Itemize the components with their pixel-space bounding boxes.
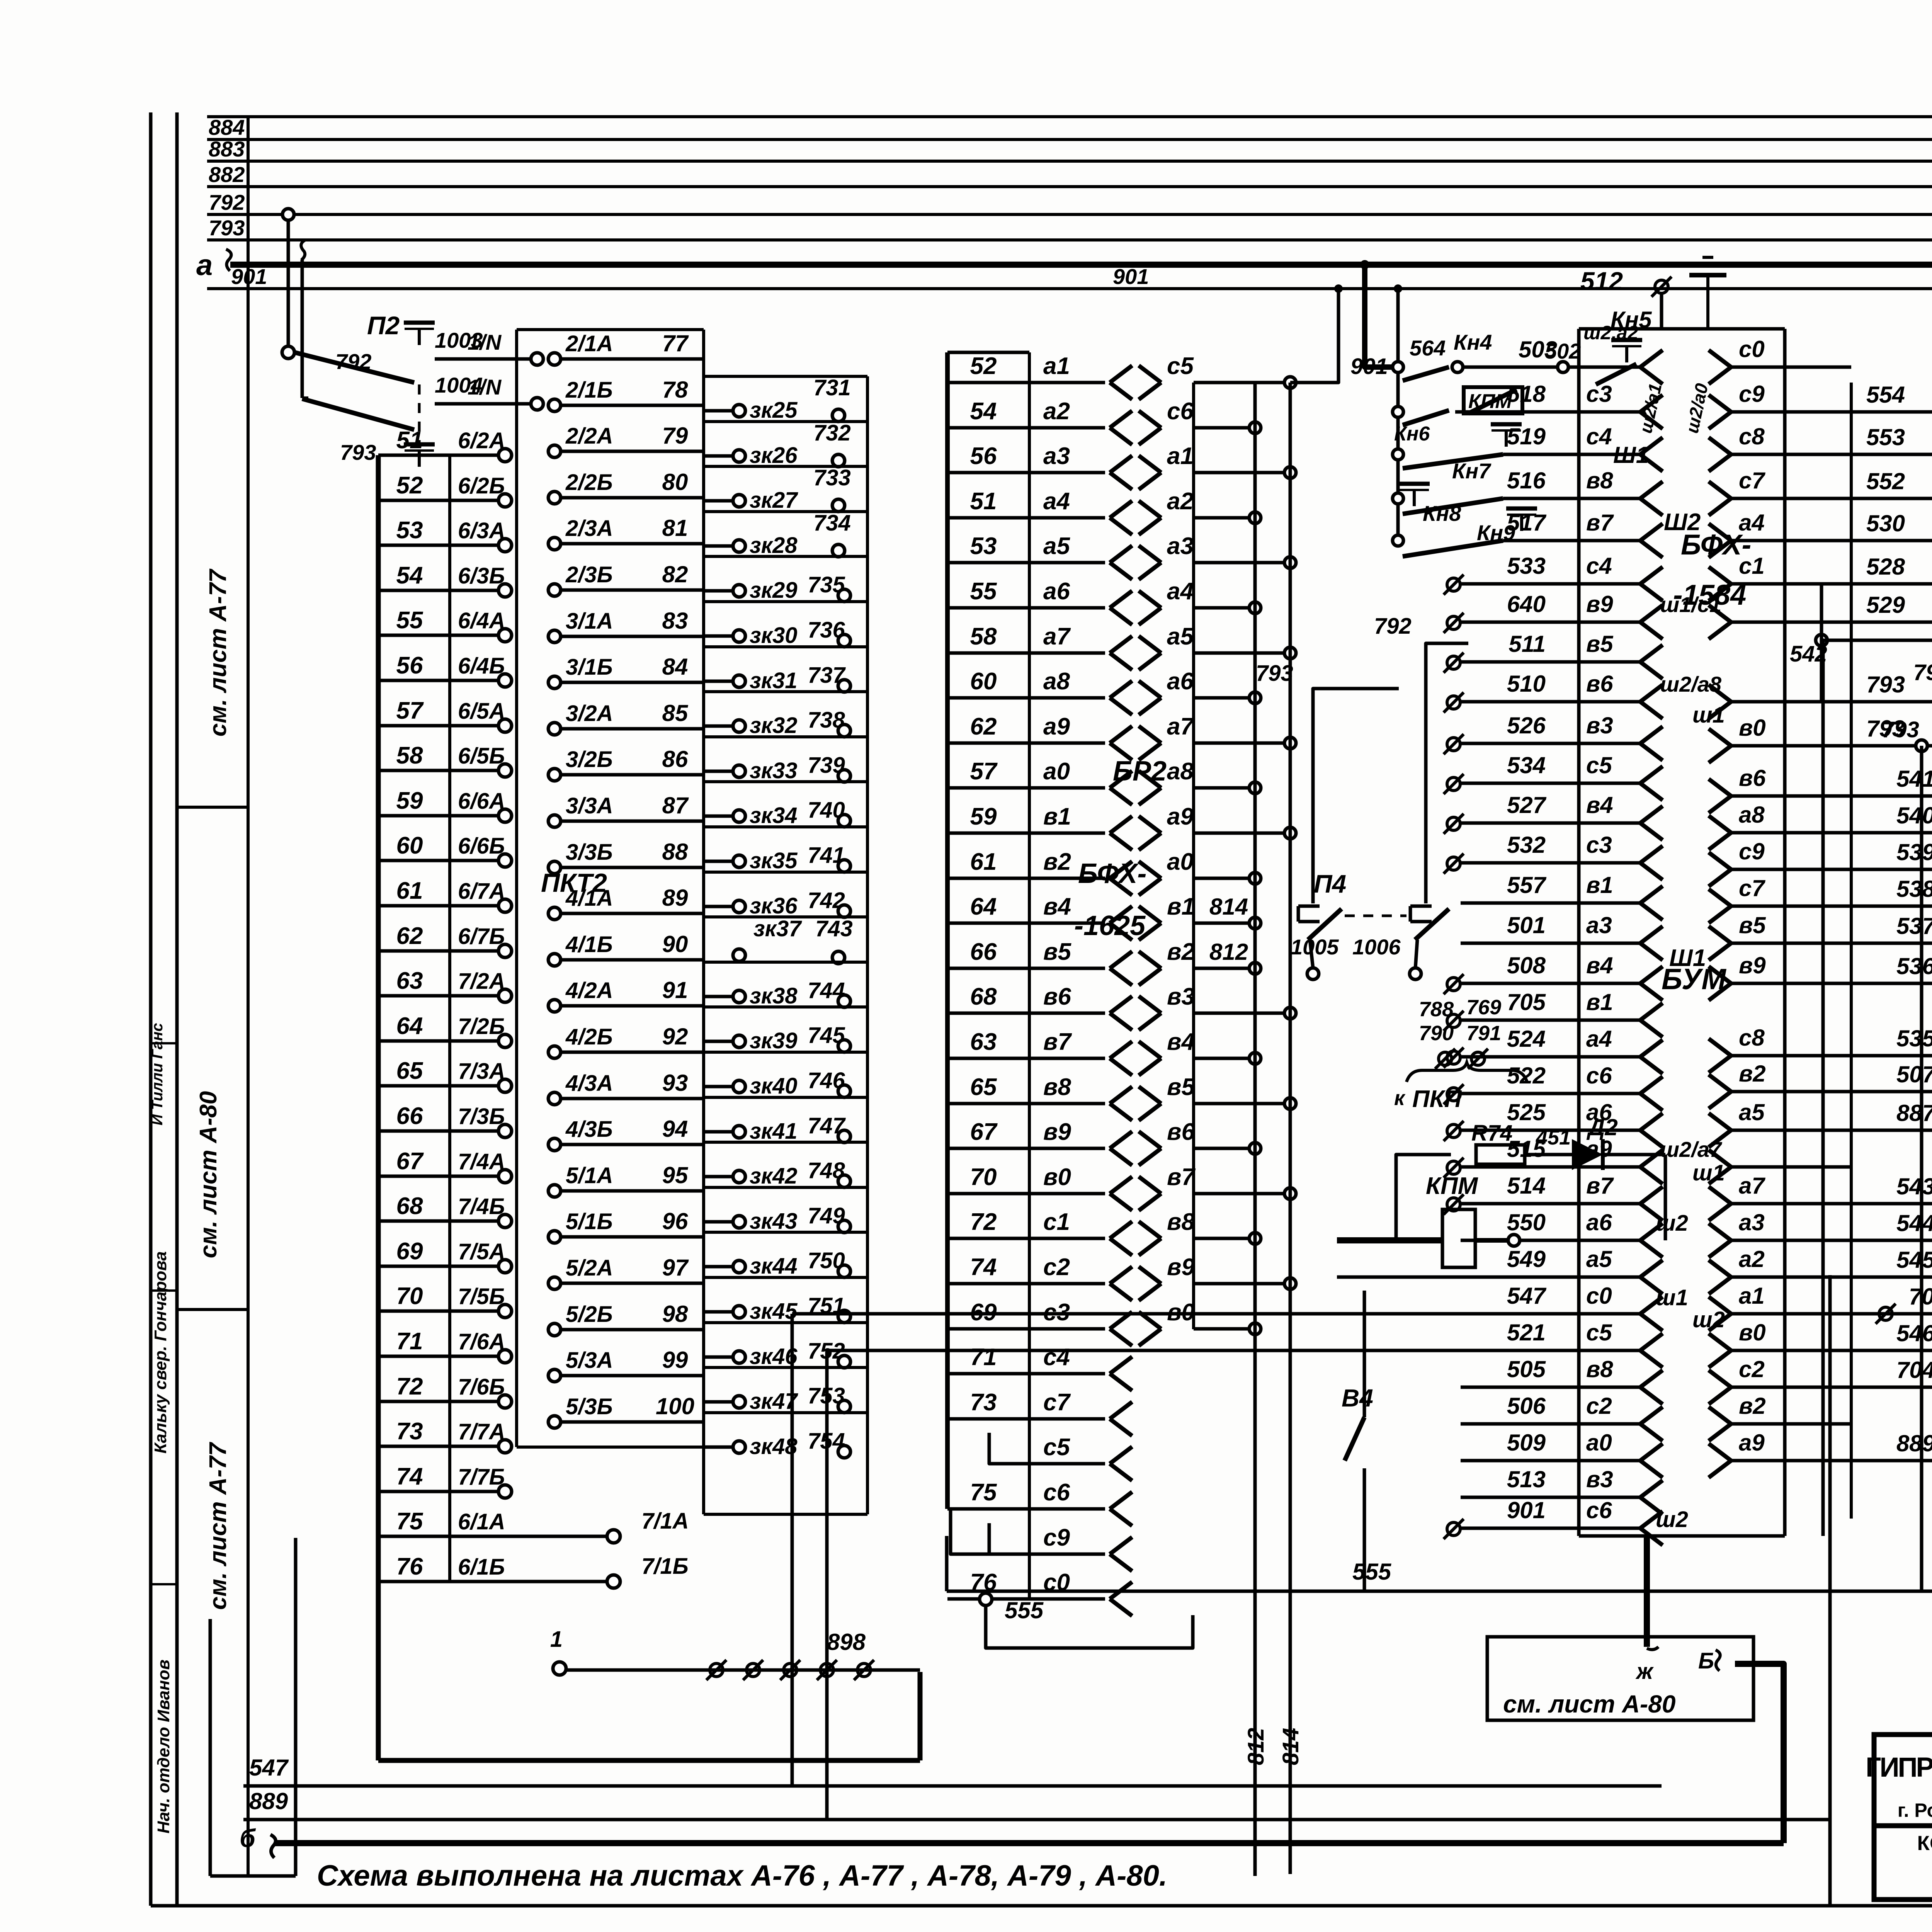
svg-text:791: 791 xyxy=(1466,1022,1501,1045)
svg-text:Нач. отдело Иванов: Нач. отдело Иванов xyxy=(154,1660,173,1833)
svg-text:7/2Б: 7/2Б xyxy=(458,1014,505,1039)
svg-text:546: 546 xyxy=(1896,1320,1932,1346)
svg-text:53: 53 xyxy=(970,533,997,560)
svg-text:60: 60 xyxy=(396,832,423,859)
svg-text:530: 530 xyxy=(1866,510,1905,536)
svg-text:см. лист А-77: см. лист А-77 xyxy=(205,1442,231,1610)
svg-text:640: 640 xyxy=(1507,591,1546,617)
svg-text:793: 793 xyxy=(1913,660,1932,685)
svg-text:6/2Б: 6/2Б xyxy=(458,473,505,498)
drawing frame bottom border xyxy=(151,1904,1932,1908)
svg-text:1: 1 xyxy=(550,1627,563,1652)
svg-text:в6: в6 xyxy=(1586,671,1613,697)
БУМ block top edge xyxy=(1579,327,1785,331)
svg-text:а7: а7 xyxy=(1043,623,1071,650)
svg-text:зк27: зк27 xyxy=(750,488,798,513)
БУМ pin ш2/а2 fork xyxy=(1640,350,1663,367)
svg-text:882: 882 xyxy=(209,162,245,187)
svg-text:553: 553 xyxy=(1866,424,1905,450)
svg-text:зк31: зк31 xyxy=(750,668,798,693)
svg-text:ш2: ш2 xyxy=(1656,1211,1688,1236)
switch П2 link dashes xyxy=(418,384,421,442)
svg-text:см. лист А-80: см. лист А-80 xyxy=(1503,1690,1675,1718)
svg-text:в8: в8 xyxy=(1043,1074,1071,1100)
svg-text:в0: в0 xyxy=(1739,715,1766,741)
wire 793 step (ш2/а8) xyxy=(1821,640,1932,662)
БУМ right pin с9 wire 539 xyxy=(1709,852,1731,869)
relay contact зк36 742 xyxy=(704,871,867,874)
svg-text:в6: в6 xyxy=(1167,1119,1195,1145)
wire 542 drop xyxy=(1821,640,1851,702)
svg-text:533: 533 xyxy=(1507,553,1546,579)
svg-text:ш1: ш1 xyxy=(1656,1285,1688,1310)
svg-text:552: 552 xyxy=(1866,468,1905,494)
БУМ right pin с0 wire xyxy=(1709,350,1731,367)
svg-text:в1: в1 xyxy=(1586,989,1613,1015)
svg-text:зк29: зк29 xyxy=(750,578,798,603)
svg-text:793: 793 xyxy=(340,440,376,464)
svg-text:в7: в7 xyxy=(1043,1029,1072,1055)
svg-text:506: 506 xyxy=(1507,1393,1546,1419)
svg-text:1/N: 1/N xyxy=(468,375,502,399)
wire ш2 drop to bottom xyxy=(1828,1275,1832,1905)
svg-text:а2: а2 xyxy=(1167,488,1194,515)
svg-text:с3: с3 xyxy=(1586,381,1612,407)
БР2 right pin а0 xyxy=(1139,861,1161,878)
svg-text:Д2: Д2 xyxy=(1586,1114,1618,1140)
svg-text:Ш1: Ш1 xyxy=(1669,945,1706,971)
svg-text:790: 790 xyxy=(1419,1022,1454,1045)
svg-text:ш1: ш1 xyxy=(1692,702,1725,728)
thick wire from Б xyxy=(1735,1664,1784,1843)
svg-text:519: 519 xyxy=(1507,423,1546,449)
svg-text:5/3А: 5/3А xyxy=(566,1348,613,1373)
svg-text:67: 67 xyxy=(970,1119,998,1145)
wire 564 drop from а-bus xyxy=(1365,265,1392,367)
svg-text:57: 57 xyxy=(970,758,998,785)
svg-text:516: 516 xyxy=(1507,468,1546,493)
svg-text:6/6А: 6/6А xyxy=(458,789,505,814)
svg-text:95: 95 xyxy=(662,1162,689,1188)
svg-text:734: 734 xyxy=(813,510,851,536)
svg-text:792: 792 xyxy=(209,190,245,214)
svg-text:зк25: зк25 xyxy=(750,398,798,423)
БР2 right pin а2 xyxy=(1139,501,1161,518)
svg-text:7/5А: 7/5А xyxy=(458,1239,505,1264)
relay contact зк48 754 xyxy=(704,1411,867,1414)
svg-text:зк30: зк30 xyxy=(750,623,798,648)
svg-text:514: 514 xyxy=(1507,1173,1546,1199)
svg-text:704: 704 xyxy=(1896,1357,1932,1383)
svg-text:74: 74 xyxy=(970,1254,997,1281)
svg-text:в7: в7 xyxy=(1586,510,1614,536)
wire 549 feed xyxy=(1337,1276,1461,1279)
bus hook а xyxy=(226,249,231,271)
svg-text:зк36: зк36 xyxy=(750,893,798,918)
svg-text:91: 91 xyxy=(662,977,688,1003)
svg-text:68: 68 xyxy=(396,1193,423,1219)
bus line 882 xyxy=(207,185,1932,188)
svg-text:812: 812 xyxy=(1243,1728,1269,1765)
svg-text:с6: с6 xyxy=(1167,398,1194,425)
svg-text:98: 98 xyxy=(662,1301,688,1327)
svg-text:65: 65 xyxy=(396,1058,423,1084)
svg-text:56: 56 xyxy=(396,652,423,679)
БУМ right pin в0 wire 793 xyxy=(1709,729,1731,746)
БУМ right pin а5 wire 887 xyxy=(1709,1113,1731,1130)
svg-text:зк38: зк38 xyxy=(750,983,798,1009)
wire 547 big route xyxy=(792,1312,1461,1316)
svg-text:с4: с4 xyxy=(1586,553,1612,579)
wire rail Кн buttons xyxy=(1396,367,1400,541)
svg-text:66: 66 xyxy=(396,1103,423,1129)
svg-text:7/1А: 7/1А xyxy=(641,1509,689,1534)
svg-text:в8: в8 xyxy=(1586,468,1613,493)
svg-text:70: 70 xyxy=(970,1164,997,1190)
БР2 right pin а9 xyxy=(1139,816,1161,833)
svg-text:2/3А: 2/3А xyxy=(565,516,613,541)
БР2 right pin в8 xyxy=(1139,1221,1161,1238)
svg-text:535: 535 xyxy=(1896,1026,1932,1051)
БУМ right pin а8 wire 540 xyxy=(1709,816,1731,833)
svg-text:534: 534 xyxy=(1507,752,1546,778)
svg-text:57: 57 xyxy=(396,697,424,724)
БР2 right pin а6 xyxy=(1139,681,1161,698)
svg-text:зк44: зк44 xyxy=(750,1253,798,1279)
box см.лист А-80 xyxy=(1487,1637,1753,1720)
svg-text:518: 518 xyxy=(1507,381,1546,407)
relay contact зк40 746 xyxy=(704,1051,867,1054)
svg-text:72: 72 xyxy=(396,1373,423,1400)
svg-text:79: 79 xyxy=(662,423,688,449)
svg-text:732: 732 xyxy=(813,420,851,446)
thick wire to ж xyxy=(1644,1536,1650,1647)
svg-text:с4: с4 xyxy=(1586,423,1612,449)
svg-text:зк33: зк33 xyxy=(750,758,798,783)
svg-text:502: 502 xyxy=(1545,339,1581,363)
svg-text:5/3Б: 5/3Б xyxy=(566,1394,613,1419)
terminal block ПКТ2 bottom edge xyxy=(378,1758,920,1763)
svg-text:с5: с5 xyxy=(1167,353,1194,379)
svg-text:5/2А: 5/2А xyxy=(566,1255,613,1281)
svg-text:3/3Б: 3/3Б xyxy=(566,840,613,865)
svg-text:3/3А: 3/3А xyxy=(566,793,613,818)
svg-text:см. лист А-80: см. лист А-80 xyxy=(195,1091,222,1258)
БУМ right pin а1 wire 703ø xyxy=(1709,1297,1731,1314)
БР2 right name column rule xyxy=(1192,383,1195,1329)
svg-text:к: к xyxy=(1394,1087,1406,1110)
svg-text:71: 71 xyxy=(970,1344,997,1371)
svg-text:с5: с5 xyxy=(1043,1434,1070,1461)
svg-text:с9: с9 xyxy=(1043,1524,1070,1551)
margin section divider 2 xyxy=(177,1308,248,1311)
svg-text:5/2Б: 5/2Б xyxy=(566,1302,613,1327)
svg-text:6/4Б: 6/4Б xyxy=(458,653,505,679)
svg-text:564: 564 xyxy=(1410,336,1446,360)
wire 529 long xyxy=(1851,621,1932,624)
svg-text:2/2Б: 2/2Б xyxy=(565,470,613,495)
svg-text:с5: с5 xyxy=(1586,1320,1612,1345)
bus line 792 xyxy=(207,213,1932,216)
svg-text:84: 84 xyxy=(662,654,688,680)
wire 521 route xyxy=(827,1350,1461,1820)
svg-text:526: 526 xyxy=(1507,713,1546,738)
svg-text:769: 769 xyxy=(1466,996,1501,1019)
555 step box left xyxy=(945,1536,949,1591)
terminal block ПКТ2 left edge xyxy=(376,455,381,1760)
svg-text:525: 525 xyxy=(1507,1099,1546,1125)
БУМ right pin а2 wire 545 xyxy=(1709,1260,1731,1277)
svg-text:г. Ростов-на-Дону 1976 г: г. Ростов-на-Дону 1976 г xyxy=(1898,1799,1932,1821)
svg-text:ш2/а8: ш2/а8 xyxy=(1660,672,1722,696)
svg-text:3/2Б: 3/2Б xyxy=(566,747,613,772)
svg-text:в5: в5 xyxy=(1167,1074,1195,1100)
БР2 right pin в4 xyxy=(1139,1041,1161,1058)
wire row 75 stub xyxy=(951,1509,989,1554)
svg-text:зк35: зк35 xyxy=(750,848,798,873)
bus line 884 xyxy=(207,138,1932,141)
svg-text:72: 72 xyxy=(970,1209,997,1235)
svg-text:547: 547 xyxy=(249,1755,289,1781)
svg-text:а1: а1 xyxy=(1739,1283,1765,1309)
svg-text:в2: в2 xyxy=(1167,939,1195,965)
svg-text:549: 549 xyxy=(1507,1246,1546,1272)
svg-text:а0: а0 xyxy=(1586,1430,1612,1456)
svg-text:540: 540 xyxy=(1896,803,1932,828)
svg-text:61: 61 xyxy=(970,849,997,875)
svg-text:532: 532 xyxy=(1507,832,1546,858)
svg-text:97: 97 xyxy=(662,1255,689,1281)
svg-text:с2: с2 xyxy=(1739,1356,1765,1382)
svg-text:с6: с6 xyxy=(1043,1479,1070,1506)
drawing frame left inner border xyxy=(175,112,179,1906)
svg-text:5/1А: 5/1А xyxy=(566,1163,613,1188)
svg-text:с3: с3 xyxy=(1586,832,1612,858)
svg-text:в2: в2 xyxy=(1739,1061,1766,1087)
node П2 pole1 xyxy=(282,346,294,359)
wire 792 drop to П2 xyxy=(287,214,290,352)
svg-text:6/1А: 6/1А xyxy=(458,1509,505,1534)
svg-text:901: 901 xyxy=(1113,264,1149,289)
svg-text:с4: с4 xyxy=(1043,1344,1070,1371)
svg-text:528: 528 xyxy=(1866,554,1905,580)
БУМ right pin с8 wire 553 xyxy=(1709,437,1731,454)
svg-text:512: 512 xyxy=(1580,267,1623,295)
svg-text:705: 705 xyxy=(1507,989,1546,1015)
svg-text:а8: а8 xyxy=(1739,802,1765,828)
junction 542 xyxy=(1816,634,1827,646)
svg-text:4/3А: 4/3А xyxy=(565,1071,613,1096)
svg-text:64: 64 xyxy=(396,1013,423,1039)
svg-text:88: 88 xyxy=(662,839,688,865)
svg-text:в1: в1 xyxy=(1043,803,1071,830)
svg-text:4/1Б: 4/1Б xyxy=(565,932,613,957)
svg-text:ПКТ2: ПКТ2 xyxy=(541,868,607,898)
relay contact зк38 744 xyxy=(704,961,867,964)
svg-text:-1625: -1625 xyxy=(1074,910,1146,941)
svg-text:зк34: зк34 xyxy=(750,803,798,828)
svg-text:в8: в8 xyxy=(1167,1209,1195,1235)
svg-text:538: 538 xyxy=(1896,876,1932,902)
relay contact зк28 734 xyxy=(704,510,867,513)
БУМ right pin в5 wire 537 xyxy=(1709,926,1731,943)
svg-text:2/2А: 2/2А xyxy=(565,423,613,449)
svg-text:7/2А: 7/2А xyxy=(458,969,505,994)
svg-text:6/7А: 6/7А xyxy=(458,879,505,904)
svg-text:с9: с9 xyxy=(1739,838,1765,864)
svg-text:в9: в9 xyxy=(1043,1119,1071,1145)
svg-text:ж: ж xyxy=(1635,1659,1654,1684)
svg-text:78: 78 xyxy=(662,377,688,403)
svg-text:а9: а9 xyxy=(1043,713,1070,740)
svg-text:а2: а2 xyxy=(1043,398,1070,425)
svg-text:75: 75 xyxy=(970,1479,997,1506)
svg-text:а6: а6 xyxy=(1586,1209,1612,1235)
title block outline xyxy=(1874,1735,1932,1900)
БУМ right pin с2 wire 704 xyxy=(1709,1370,1731,1387)
svg-text:51: 51 xyxy=(970,488,997,515)
svg-text:555: 555 xyxy=(1005,1597,1044,1623)
margin section divider 3 (bracket bottom) xyxy=(210,1874,296,1878)
svg-text:65: 65 xyxy=(970,1074,997,1100)
svg-text:а3: а3 xyxy=(1586,912,1612,938)
svg-text:а1: а1 xyxy=(1043,353,1070,379)
svg-text:6/4А: 6/4А xyxy=(458,608,505,633)
svg-text:а0: а0 xyxy=(1043,758,1070,785)
svg-text:554: 554 xyxy=(1866,382,1905,408)
БУМ block bottom edge xyxy=(1579,1534,1785,1538)
БР2 right pin в9 xyxy=(1139,1267,1161,1284)
relay contact зк47 753 xyxy=(704,1366,867,1369)
relay contact зк46 752 xyxy=(704,1321,867,1324)
svg-text:7/3А: 7/3А xyxy=(458,1059,505,1084)
БУМ right number column rule xyxy=(1850,383,1853,1519)
БР2 right pin в6 xyxy=(1139,1131,1161,1148)
svg-text:81: 81 xyxy=(662,515,688,541)
junction КПМ-550 xyxy=(1508,1235,1520,1246)
svg-text:52: 52 xyxy=(396,472,423,499)
svg-text:6/3А: 6/3А xyxy=(458,518,505,543)
svg-text:509: 509 xyxy=(1507,1430,1546,1456)
wire 901 to БР2 с5 xyxy=(1290,289,1338,383)
wire 555 xyxy=(947,1590,1932,1593)
margin section divider 1 xyxy=(177,806,248,809)
svg-text:99: 99 xyxy=(662,1347,688,1373)
svg-text:а9: а9 xyxy=(1167,803,1194,830)
svg-text:ш2: ш2 xyxy=(1692,1307,1725,1332)
svg-text:КОМПРЕССОРНАЯ: КОМПРЕССОРНАЯ xyxy=(1917,1832,1932,1855)
БР2 block number column xyxy=(945,352,950,1509)
svg-text:в4: в4 xyxy=(1586,952,1613,978)
svg-text:с1: с1 xyxy=(1043,1209,1070,1235)
wire R74 left leg xyxy=(1396,1155,1451,1240)
svg-text:в0: в0 xyxy=(1043,1164,1071,1190)
svg-text:зк32: зк32 xyxy=(750,713,798,738)
svg-text:527: 527 xyxy=(1507,792,1547,818)
svg-text:1005: 1005 xyxy=(1291,935,1339,959)
svg-text:ш2/а7: ш2/а7 xyxy=(1660,1137,1723,1162)
svg-text:с6: с6 xyxy=(1586,1497,1612,1523)
relay contact зк37 743 xyxy=(704,915,867,918)
svg-text:с2: с2 xyxy=(1586,1393,1612,1419)
БУМ right pin в2 wire xyxy=(1709,1407,1731,1424)
svg-text:с0: с0 xyxy=(1739,336,1765,362)
relay contact зк42 748 xyxy=(704,1141,867,1144)
svg-text:в9: в9 xyxy=(1167,1254,1195,1281)
БУМ right pin в9 wire 536 xyxy=(1709,966,1731,983)
svg-text:ш2,а2: ш2,а2 xyxy=(1583,322,1638,344)
svg-text:в2: в2 xyxy=(1739,1393,1766,1419)
svg-text:94: 94 xyxy=(662,1116,688,1142)
svg-text:56: 56 xyxy=(970,443,997,469)
svg-text:58: 58 xyxy=(970,623,997,650)
svg-text:а1: а1 xyxy=(1167,443,1194,469)
БУМ right pin а7 wire 543 xyxy=(1709,1187,1731,1204)
svg-text:67: 67 xyxy=(396,1148,424,1175)
svg-text:71: 71 xyxy=(396,1328,423,1355)
relay contact зк31 737 xyxy=(704,645,867,648)
svg-text:ГИПРОСТРОЙДОРМАШ: ГИПРОСТРОЙДОРМАШ xyxy=(1866,1752,1932,1783)
svg-text:с5: с5 xyxy=(1586,752,1612,778)
svg-text:В4: В4 xyxy=(1342,1384,1373,1412)
svg-text:а8: а8 xyxy=(1167,758,1194,785)
svg-text:Кальку свер. Гончарова: Кальку свер. Гончарова xyxy=(151,1251,170,1453)
wire 530 drop xyxy=(1851,541,1932,584)
svg-text:в4: в4 xyxy=(1043,893,1071,920)
svg-text:55: 55 xyxy=(970,578,997,605)
svg-text:537: 537 xyxy=(1896,913,1932,939)
svg-text:541: 541 xyxy=(1896,766,1932,792)
svg-text:а5: а5 xyxy=(1586,1246,1612,1272)
svg-text:814: 814 xyxy=(1209,894,1248,920)
drawing frame left outer border xyxy=(149,112,153,1906)
svg-text:547: 547 xyxy=(1507,1283,1547,1309)
svg-text:2/1А: 2/1А xyxy=(565,331,613,356)
svg-text:3/2А: 3/2А xyxy=(566,701,613,726)
bus line 888 xyxy=(207,115,1932,118)
svg-text:с7: с7 xyxy=(1739,875,1765,901)
svg-text:545: 545 xyxy=(1896,1247,1932,1273)
svg-text:П2: П2 xyxy=(367,311,400,340)
БР2 right pin а5 xyxy=(1139,636,1161,653)
svg-text:в5: в5 xyxy=(1739,912,1766,938)
БУМ right pin в6 wire 541 xyxy=(1709,779,1731,796)
svg-text:96: 96 xyxy=(662,1208,688,1234)
bus line а xyxy=(230,262,1932,268)
relay contact зк34 740 xyxy=(704,780,867,783)
svg-text:И Тилли Ганс: И Тилли Ганс xyxy=(149,1023,166,1125)
svg-text:ш1/с1: ш1/с1 xyxy=(1660,592,1721,617)
svg-text:73: 73 xyxy=(396,1418,423,1445)
svg-text:812: 812 xyxy=(1209,939,1248,965)
svg-text:а7: а7 xyxy=(1167,713,1194,740)
svg-text:в3: в3 xyxy=(1167,983,1195,1010)
svg-text:85: 85 xyxy=(662,700,689,726)
svg-text:69: 69 xyxy=(396,1238,423,1265)
БУМ right pin с7 wire 538 xyxy=(1709,889,1731,906)
svg-text:1/N: 1/N xyxy=(468,330,502,354)
svg-text:60: 60 xyxy=(970,668,997,695)
svg-text:68: 68 xyxy=(970,983,997,1010)
relay contact зк29 735 xyxy=(704,555,867,558)
svg-text:в3: в3 xyxy=(1586,713,1613,738)
svg-text:а5: а5 xyxy=(1739,1099,1765,1125)
svg-text:87: 87 xyxy=(662,793,689,818)
БУМ right pin в2 wire 507 xyxy=(1709,1075,1731,1092)
svg-text:83: 83 xyxy=(662,608,688,634)
bus line 883 xyxy=(207,160,1932,163)
svg-text:6/3Б: 6/3Б xyxy=(458,563,505,588)
